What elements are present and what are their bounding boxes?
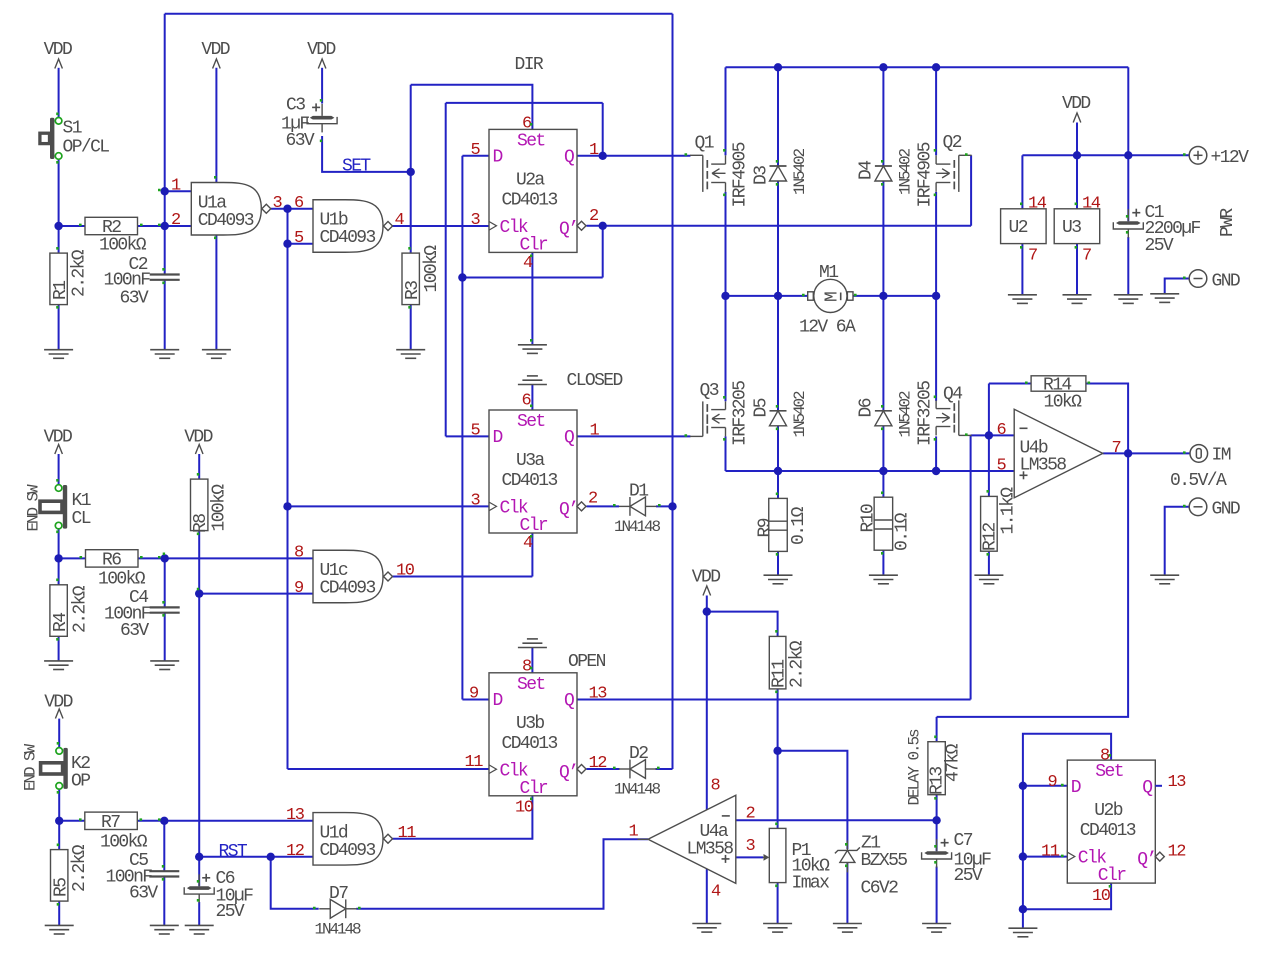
svg-text:D: D [493, 428, 503, 448]
svg-text:R5: R5 [52, 878, 72, 897]
U2b Q pin stub [1155, 785, 1162, 787]
wire R11 bottom [777, 689, 779, 829]
zener Z1 [835, 840, 860, 872]
svg-text:CD4013: CD4013 [502, 190, 558, 210]
svg-text:CD4013: CD4013 [502, 734, 558, 754]
svg-text:5: 5 [997, 457, 1007, 476]
ground C7 [922, 924, 951, 933]
svg-text:Clr: Clr [520, 235, 548, 255]
junction U2b Clk [1019, 852, 1027, 860]
gate U1b [313, 200, 393, 253]
wire P1 to ground [777, 883, 779, 924]
flip-flop U2a [489, 129, 577, 255]
wire +12V rail [1022, 154, 1189, 156]
wire U2b ground bus [1023, 734, 1111, 928]
ground C1 [1114, 295, 1143, 304]
ground R5 [45, 925, 74, 934]
wire U3a Set inverted ground stem [531, 385, 533, 411]
svg-text:M1: M1 [819, 263, 838, 283]
wire U1b pin 5 [288, 243, 314, 245]
svg-text:Clr: Clr [520, 779, 548, 799]
terminal IM [1190, 445, 1208, 463]
svg-text:U3: U3 [1062, 218, 1081, 238]
svg-text:1: 1 [171, 177, 181, 196]
svg-text:C7: C7 [954, 831, 973, 851]
junction SET [407, 168, 415, 176]
junction R6-C4 [161, 554, 169, 562]
svg-text:5: 5 [471, 141, 481, 160]
capacitor C4 [150, 607, 180, 612]
svg-text:C3: C3 [286, 96, 305, 116]
svg-text:1N4148: 1N4148 [315, 921, 362, 939]
wire Q4 column [935, 296, 937, 401]
U2a Qbar diamond [577, 221, 586, 230]
capacitor C7 [922, 839, 952, 868]
power VDD K1 [44, 428, 72, 455]
wire VDD to S1 [58, 68, 60, 118]
wire R10 to ground [882, 550, 884, 575]
switch K1 [40, 485, 67, 529]
U3b Qbar diamond [577, 765, 586, 774]
svg-text:12: 12 [1168, 843, 1186, 862]
ground P1 [763, 924, 792, 933]
svg-text:1: 1 [629, 823, 639, 842]
ground U2a Clr [518, 345, 547, 354]
svg-text:2.2kΩ: 2.2kΩ [70, 249, 90, 297]
svg-text:100nF: 100nF [104, 271, 151, 291]
svg-text:R7: R7 [101, 813, 120, 833]
inverted ground U3b Set [518, 639, 547, 648]
wire Q4 gate to U4b pin 6 [971, 434, 1015, 436]
svg-text:2: 2 [171, 211, 180, 230]
junction U1a pin 1 [161, 187, 169, 195]
junction U3a Clk branch [283, 502, 291, 510]
junction sense rail Q4 [932, 467, 940, 475]
wire rail to +12V [1127, 67, 1129, 155]
svg-text:12V 6A: 12V 6A [799, 318, 856, 338]
wire D4 bottom [882, 181, 884, 296]
ground R3 [396, 350, 425, 359]
svg-text:2.2kΩ: 2.2kΩ [71, 585, 91, 633]
wire K1 to junction [58, 529, 60, 559]
svg-text:8: 8 [294, 544, 304, 563]
svg-text:8: 8 [711, 777, 721, 796]
wire VDD to R8 [198, 454, 200, 479]
svg-text:R10: R10 [859, 504, 879, 532]
diode D3 [770, 166, 787, 181]
wire D3 bottom [777, 181, 779, 296]
svg-text:+12V: +12V [1211, 148, 1250, 168]
svg-text:K1: K1 [72, 491, 91, 511]
junction RST-C6 [195, 853, 203, 861]
svg-text:11: 11 [465, 753, 484, 772]
power VDD C3 [307, 40, 335, 69]
svg-text:0.1Ω: 0.1Ω [789, 506, 809, 545]
diode D2 [619, 760, 657, 779]
svg-text:CD4013: CD4013 [502, 471, 558, 491]
svg-text:5: 5 [471, 422, 481, 441]
capacitor C3 [307, 103, 337, 132]
wire Qbar link horizontal [462, 277, 602, 279]
junction top rail D4 [879, 63, 887, 71]
svg-text:D6: D6 [857, 398, 877, 417]
svg-text:3: 3 [471, 492, 481, 511]
switch S1 [40, 118, 62, 160]
ground C6 [185, 925, 214, 934]
wire GND terminal link [1165, 279, 1190, 294]
junction U2a Qbar [599, 222, 607, 230]
svg-text:9: 9 [469, 685, 479, 704]
svg-text:12: 12 [589, 754, 607, 773]
wire U1a out to U1b pin 6 [271, 208, 313, 210]
svg-text:VDD: VDD [184, 428, 212, 448]
svg-text:R9: R9 [756, 518, 776, 537]
wire to U3b Clk pin 11 [288, 768, 490, 770]
svg-text:D1: D1 [629, 482, 648, 502]
wire U3a Q to Q3 gate [577, 435, 691, 437]
svg-text:IRF3205: IRF3205 [731, 381, 751, 446]
svg-text:10: 10 [515, 799, 534, 818]
svg-text:BZX55: BZX55 [861, 851, 908, 871]
svg-text:U2b: U2b [1094, 801, 1122, 821]
wire Q4 gate vertical [970, 435, 972, 699]
op-amp U4b [1014, 409, 1103, 498]
wire Q1 top [725, 67, 727, 155]
terminal +12V [1189, 147, 1207, 165]
wire C2 bottom to ground [164, 280, 166, 350]
op-amp gate U1a [191, 183, 270, 236]
wire VDD junction to R11 [707, 612, 778, 637]
svg-text:0.5V/A: 0.5V/A [1170, 471, 1227, 491]
wire S1 to junction [58, 159, 60, 226]
wire U1a pin 1 [165, 190, 192, 192]
flip-flop U3a [489, 410, 577, 536]
junction D1 feedback [668, 502, 676, 510]
svg-text:LM358: LM358 [687, 840, 734, 860]
resistor R12 [981, 496, 998, 551]
svg-text:R12: R12 [981, 523, 1001, 551]
svg-text:Imax: Imax [792, 874, 830, 894]
resistor R11 [769, 636, 786, 689]
svg-text:D: D [1071, 778, 1081, 798]
svg-text:Q1: Q1 [695, 134, 714, 154]
svg-text:63V: 63V [120, 621, 149, 641]
wire D4 top [882, 67, 884, 166]
wire junction to R1 [58, 226, 60, 253]
resistor R9 [769, 498, 788, 551]
svg-text:R4: R4 [51, 613, 71, 632]
resistor R4 [50, 585, 67, 637]
wire Q-D crosslink horizontal [446, 102, 603, 104]
wire U2b Clk pin 11 [1023, 856, 1067, 858]
svg-text:25V: 25V [1145, 236, 1174, 256]
svg-text:D3: D3 [752, 166, 772, 185]
wire R6 left [59, 557, 86, 559]
wire R3 bottom to ground [410, 305, 412, 350]
U3a Qbar diamond [577, 502, 586, 511]
wire VDD to K2 [58, 719, 60, 748]
diode D6 [875, 411, 892, 426]
svg-text:VDD: VDD [201, 40, 229, 60]
ground U4a pin 4 [692, 924, 721, 933]
svg-text:R1: R1 [51, 281, 71, 300]
svg-text:13: 13 [286, 806, 305, 825]
resistor R2 [85, 217, 138, 234]
svg-text:1: 1 [590, 422, 600, 441]
svg-text:R6: R6 [102, 551, 121, 571]
power box U3 [1054, 209, 1100, 244]
wire U2b Clr pin 10 [1023, 883, 1111, 909]
ground U2b [1008, 928, 1037, 937]
wire R10 top [882, 471, 884, 497]
svg-text:OP/CL: OP/CL [63, 138, 110, 158]
power VDD U1a [201, 40, 229, 69]
switch K2 [41, 748, 68, 790]
svg-text:IM: IM [1212, 446, 1231, 466]
svg-text:Q’: Q’ [1137, 850, 1155, 870]
svg-text:12: 12 [286, 842, 304, 861]
svg-text:100kΩ: 100kΩ [100, 832, 148, 852]
svg-text:14: 14 [1028, 195, 1047, 214]
junction top rail Q2 [932, 63, 940, 71]
svg-text:S1: S1 [63, 119, 82, 139]
wire SET to U2a Set pin 6 [411, 85, 533, 130]
junction sense rail R9 [774, 467, 782, 475]
wire R6 junction to U1c pin 8 [165, 557, 313, 559]
svg-text:100kΩ: 100kΩ [98, 570, 146, 590]
svg-text:D5: D5 [752, 398, 772, 417]
svg-text:47kΩ: 47kΩ [944, 743, 964, 782]
wire R5 to ground [58, 901, 60, 925]
wire sense rail to U4b pin 5 [726, 470, 1015, 472]
junction motor rail D6 [879, 292, 887, 300]
svg-text:100kΩ: 100kΩ [210, 484, 230, 532]
wire SET vertical [410, 85, 412, 253]
svg-text:IRF3205: IRF3205 [916, 381, 936, 446]
svg-text:11: 11 [398, 824, 417, 843]
svg-text:CD4013: CD4013 [1080, 821, 1136, 841]
wire D6 top [882, 296, 884, 411]
svg-text:9: 9 [294, 579, 304, 598]
svg-text:U2a: U2a [516, 170, 545, 190]
svg-text:OP: OP [71, 772, 90, 792]
ground R9 [764, 575, 793, 584]
ground R1 [44, 350, 73, 359]
wire U2 pin 7 to ground [1021, 244, 1023, 295]
svg-text:13: 13 [1168, 773, 1187, 792]
wire U3b Q to Q4 gate column [577, 699, 971, 701]
svg-text:Set: Set [517, 131, 545, 151]
wire junction to R4 [58, 558, 60, 584]
svg-text:D4: D4 [857, 161, 877, 180]
svg-text:2: 2 [746, 805, 755, 824]
wire U4a pin 3 to P1 [736, 856, 763, 858]
U2b Qbar diamond [1155, 852, 1164, 861]
terminal GND upper [1189, 270, 1207, 288]
wire Q3 column [725, 296, 727, 401]
svg-text:CL: CL [72, 509, 91, 529]
wire feedback left vertical to C2 [164, 14, 166, 275]
wire U1a pin 2 [165, 225, 192, 227]
wire U1a to ground [215, 235, 217, 350]
gate U1c [313, 550, 393, 603]
resistor R14 [1031, 376, 1086, 391]
svg-text:25V: 25V [216, 902, 245, 922]
wire D7 to U4a out [356, 839, 648, 909]
wire C3 top VDD [321, 68, 323, 104]
svg-text:2: 2 [588, 490, 597, 509]
junction S1-R1-R2 [54, 222, 62, 230]
junction U4b pin 6 [985, 431, 993, 439]
wire R8 junction to U1c pin 9 [199, 593, 313, 595]
flip-flop U2b [1067, 760, 1155, 886]
wire U1c out to U3a Clr [393, 576, 533, 578]
wire D3 top [777, 67, 779, 166]
power VDD U4a [692, 568, 720, 596]
svg-text:GND: GND [1212, 272, 1240, 292]
svg-text:4: 4 [711, 883, 721, 902]
svg-text:END SW: END SW [25, 484, 43, 532]
svg-text:OPEN: OPEN [568, 652, 606, 672]
wire junction to R5 [58, 821, 60, 850]
junction motor rail Q1 [721, 292, 729, 300]
svg-text:CD4093: CD4093 [320, 841, 376, 861]
svg-text:SET: SET [342, 157, 371, 177]
wire delay link [937, 453, 1129, 717]
power box U2 [1001, 209, 1047, 244]
svg-text:1N5402: 1N5402 [791, 148, 809, 195]
junction RST-D7 [267, 853, 275, 861]
junction Qbar link [458, 273, 466, 281]
op-amp U4a [648, 795, 736, 883]
junction sense rail R10 [879, 467, 887, 475]
flip-flop U3b [489, 673, 577, 799]
svg-text:DIR: DIR [515, 55, 544, 75]
svg-text:U3a: U3a [516, 451, 545, 471]
wire VDD to U1a power [215, 68, 217, 183]
svg-text:Q: Q [564, 428, 574, 448]
wire R11 junction to Z1 [778, 751, 848, 849]
svg-text:D: D [493, 691, 503, 711]
svg-text:END SW: END SW [22, 743, 40, 791]
wire VDD to U4a pin 8 [706, 596, 708, 811]
svg-text:0.1Ω: 0.1Ω [893, 512, 913, 551]
capacitor C6 [184, 874, 214, 903]
inverted ground U3a Set [518, 376, 547, 385]
junction U2b Clr [1019, 905, 1027, 913]
svg-text:11: 11 [1041, 843, 1060, 862]
transistor Q1 [690, 155, 726, 192]
svg-text:R11: R11 [770, 660, 790, 688]
svg-text:10: 10 [1092, 887, 1111, 906]
svg-text:63V: 63V [129, 884, 158, 904]
ground GND terminal 2 [1150, 575, 1179, 584]
wire U1b out to U2a Clk pin 3 [393, 225, 490, 227]
wire C3 bottom to SET [322, 136, 411, 172]
diode D4 [875, 166, 892, 181]
svg-text:Clr: Clr [1098, 866, 1126, 886]
svg-text:M: M [823, 292, 843, 302]
svg-text:3: 3 [471, 211, 481, 230]
ground U1a [202, 350, 231, 359]
diode D7 [319, 899, 357, 918]
svg-text:CD4093: CD4093 [320, 579, 376, 599]
svg-text:4: 4 [395, 211, 405, 230]
svg-text:7: 7 [1082, 247, 1091, 266]
svg-text:D7: D7 [329, 884, 348, 904]
wire Qbar link vertical [602, 226, 604, 278]
wire U3 pin 7 to ground [1076, 244, 1078, 295]
svg-text:Q4: Q4 [943, 385, 962, 405]
capacitor C2 [150, 275, 180, 280]
wire R14 left [989, 383, 1031, 385]
wire U3b Qbar to D2 [587, 768, 620, 770]
svg-text:63V: 63V [120, 289, 149, 309]
wire feedback right vertical D1/D2 [672, 14, 674, 769]
wire D6 bottom [882, 426, 884, 471]
wire junction to C4 [164, 558, 166, 607]
junction R7-C5 [160, 817, 168, 825]
resistor R5 [51, 850, 68, 902]
ground C2 [150, 350, 179, 359]
wire K2 to junction [58, 789, 60, 821]
svg-text:1N4148: 1N4148 [614, 518, 661, 536]
resistor R7 [85, 812, 138, 829]
wire C7 to ground [936, 867, 938, 924]
svg-text:D: D [493, 147, 503, 167]
svg-text:2: 2 [589, 207, 598, 226]
diode D1 [619, 497, 657, 516]
svg-text:3: 3 [273, 194, 283, 213]
svg-text:GND: GND [1212, 500, 1240, 520]
wire R2 left [59, 225, 85, 227]
svg-text:IRF4905: IRF4905 [916, 142, 936, 207]
ground U3 pin 7 [1063, 295, 1092, 304]
svg-text:1: 1 [589, 141, 599, 160]
wire U3a Qbar to D1 [587, 505, 620, 507]
svg-text:CD4093: CD4093 [320, 228, 376, 248]
wire crosslink vertical [445, 103, 447, 437]
svg-text:CLOSED: CLOSED [567, 371, 623, 391]
svg-text:10: 10 [396, 562, 415, 581]
wire R12 to ground [988, 551, 990, 575]
svg-text:Q2: Q2 [943, 133, 962, 153]
wire R7 right [137, 820, 164, 822]
wire Q4 to sense rail [935, 436, 937, 471]
junction VDD R11 [703, 607, 711, 615]
wire R13 to C7 [936, 795, 938, 851]
svg-text:Q3: Q3 [700, 381, 719, 401]
wire top feedback horizontal [165, 13, 673, 15]
wire U3b D pin 9 [462, 699, 489, 701]
ground C4 [150, 661, 179, 670]
svg-text:2.2kΩ: 2.2kΩ [70, 844, 90, 892]
wire U2a Clr to ground [531, 252, 533, 344]
svg-text:7: 7 [1112, 439, 1121, 458]
junction K2-R5-R7 [55, 817, 63, 825]
svg-text:6: 6 [294, 194, 304, 213]
svg-text:U2: U2 [1009, 218, 1028, 238]
junction R11 Z1 [773, 747, 781, 755]
svg-text:Q’: Q’ [559, 219, 577, 239]
power VDD R8 [184, 428, 212, 455]
svg-text:LM358: LM358 [1020, 456, 1067, 476]
ground Z1 [833, 924, 862, 933]
svg-text:RST: RST [219, 842, 248, 862]
junction +12V C1 [1124, 151, 1132, 159]
svg-text:5: 5 [294, 229, 304, 248]
wire C4 to ground [164, 613, 166, 661]
